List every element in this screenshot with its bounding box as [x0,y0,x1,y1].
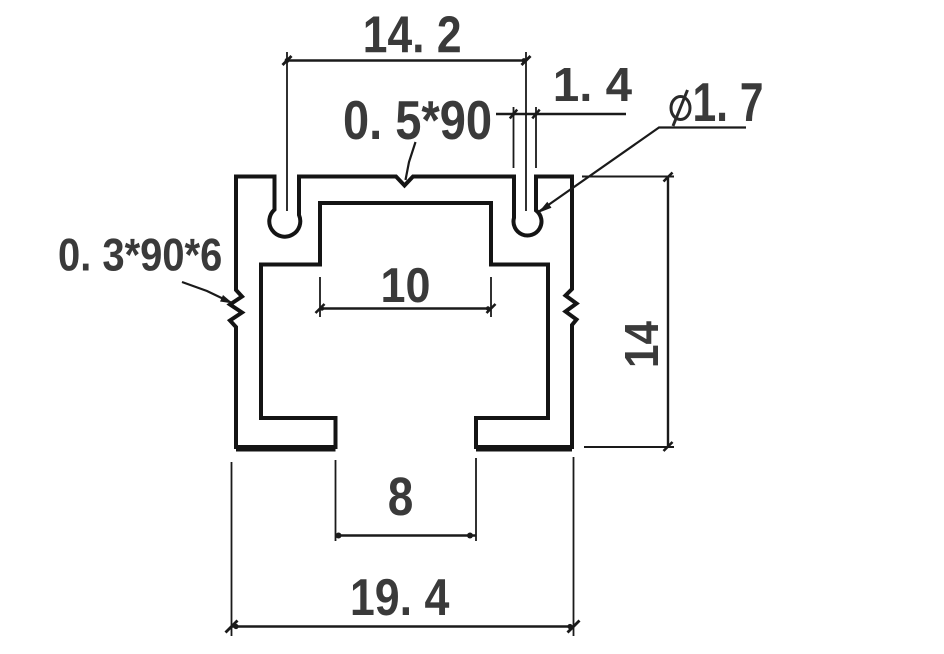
dimension text 10 [383,268,428,303]
dimension 19.4 tick left [226,621,238,633]
leader for 0.5*90 to v-notch [406,142,416,180]
bottom edge right foot (thick scan stroke) [476,446,572,452]
bottom edge left foot (thick scan stroke) [236,446,336,452]
knurl label 0.3*90*6 [60,238,221,271]
dimension 8 end dots [336,533,342,539]
dimension 19.4 line [232,625,574,627]
dimension 14 line [667,177,669,447]
dimension 19.4 extension line right [573,457,575,636]
dimension 10 extension line right [490,277,492,317]
diameter 1.7 text [695,83,761,121]
dimension 10 line [320,307,491,309]
dimension text 19.4 [353,579,449,616]
dimension 1.4 tick left [510,110,517,119]
dimension 14 tick bottom [664,442,673,451]
dimension 19.4 end dots [233,624,238,629]
dimension 1.4 extension line right [535,107,537,168]
dimension 19.4 tick right [568,621,580,633]
dimension 10 extension line left [319,277,321,317]
dimension 14.2 extension line left [286,52,288,211]
dimension 8 line [336,534,477,536]
dimension 14.2 line [287,59,526,61]
chamfer label 0.5*90 [345,101,490,140]
dimension 8 extension line left [335,460,337,541]
dimension 1.4 line [496,113,626,115]
arrowhead of 0.3*90*6 leader [220,295,233,304]
dimension 14.2 tick left [283,56,292,65]
dimension 10 end dots [320,306,324,310]
dimension 1.4 tick right [532,110,539,119]
dimension text 8 [389,477,412,515]
dimension 10 tick right [487,304,496,313]
dimension 8 extension line right [475,458,477,541]
dimension 14.2 tick right [522,56,531,65]
dimension 1.4 extension line left [513,107,515,168]
dimension text 1.4 [556,68,632,101]
profile outline (aluminum extrusion cross-section with two keyhole screw slots, v-notch, inner cavity, bottom channel, knurl zigzags) [230,177,577,448]
dimension 1.4 tick dots [512,112,516,116]
leader for diameter 1.7 to right slot circle [539,128,746,212]
dimension 14 extension line bottom [584,446,674,448]
leader for 0.3*90*6 to left wall [182,282,232,303]
dimension 14 extension line top [582,176,674,178]
dimension 10 tick left [316,304,325,313]
dimension text 14.2 [366,16,460,52]
dimension 14 tick top [664,173,673,182]
diameter symbol of 1.7 label [671,97,690,120]
dimension 14.2 extension line right [525,52,527,211]
dimension 14.2 end dots [285,58,290,63]
dimension text 14 (rotated) [625,321,658,365]
dimension 19.4 extension line left [231,462,233,636]
arrowhead of 1.7 leader [538,202,552,213]
